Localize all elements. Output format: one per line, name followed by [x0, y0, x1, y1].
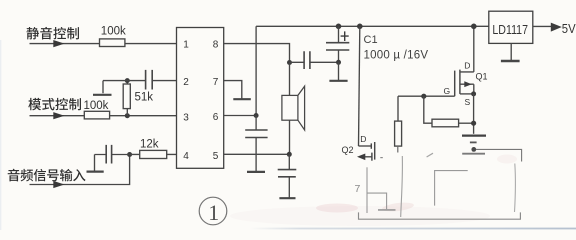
node speaker bottom	[287, 152, 292, 157]
node rail/Q2	[357, 24, 363, 30]
svg-text:S: S	[465, 97, 471, 107]
resistor R1 100k (mute)	[100, 26, 126, 47]
input arrow (mute)	[53, 40, 64, 47]
figure number 1	[199, 197, 227, 225]
svg-text:51k: 51k	[135, 92, 154, 104]
wire rail to pin 6	[255, 26, 257, 115]
wire module tick (faded)	[427, 153, 433, 157]
svg-text:7: 7	[213, 77, 219, 88]
wire rail to Q2 drain	[359, 26, 360, 146]
wire mode input	[30, 115, 85, 117]
wire C2 to pin 2	[152, 80, 177, 82]
wire module pin7 (faded)	[366, 167, 368, 213]
svg-text:12k: 12k	[140, 139, 159, 151]
svg-text:4: 4	[183, 151, 189, 162]
wire pin 6	[224, 115, 256, 117]
wire regulator output	[533, 25, 552, 27]
wire module (faded curve)	[401, 156, 403, 217]
wire audio input	[30, 155, 130, 185]
capacitor C2 (pin 2)	[146, 70, 153, 90]
svg-text:D: D	[360, 134, 366, 144]
resistor R5 (vertical, gate)	[395, 96, 402, 152]
label mute control 静音控制	[26, 27, 79, 40]
svg-text:D: D	[464, 60, 470, 70]
svg-text:1: 1	[183, 40, 189, 51]
resistor R3 51k	[123, 81, 153, 116]
svg-text:2: 2	[183, 77, 189, 88]
wire faded node to module	[476, 149, 522, 161]
node faded junction	[471, 147, 476, 152]
svg-text:Q1: Q1	[476, 72, 488, 82]
ground (module, faded)	[367, 193, 396, 210]
node source/R6	[471, 121, 476, 126]
wire R2 to pin 3	[110, 115, 177, 117]
ground (Q1 source)	[462, 134, 486, 136]
speaker LS	[282, 63, 305, 155]
resistor R6 (gate-source)	[432, 119, 474, 127]
resistor R2 100k (mode)	[84, 100, 110, 119]
ground (C1)	[329, 62, 347, 81]
svg-text:100k: 100k	[84, 100, 109, 112]
label mode control 模式控制	[28, 98, 81, 110]
module outline bracket (faded)	[359, 212, 521, 219]
wire Q1 gate	[398, 95, 455, 97]
ground (C4)	[247, 171, 265, 173]
capacitor C3 (audio shunt)	[95, 145, 130, 164]
output arrow	[551, 23, 562, 32]
power rail	[256, 25, 489, 27]
wire mute input	[30, 43, 100, 45]
wire pin 7	[224, 81, 242, 99]
node Q1 source	[471, 91, 476, 96]
node pin 8 branch	[287, 60, 292, 65]
ground (pin 2 branch)	[93, 81, 112, 95]
capacitor C6 (output)	[278, 154, 297, 197]
node gate junction	[421, 94, 426, 99]
resistor R4 12k	[130, 139, 177, 159]
node 51k top on pin 2 wire	[125, 78, 130, 83]
wire gate to R6	[424, 96, 432, 123]
node pin 6	[254, 113, 259, 118]
svg-text:5: 5	[213, 151, 219, 162]
wire pin 5	[224, 153, 290, 155]
svg-text:G: G	[444, 86, 451, 96]
IC U1	[177, 28, 224, 169]
transistor Q2	[342, 134, 383, 161]
wire R1 to pin 1	[125, 43, 177, 45]
capacitor C5 (pin8 to C1)	[290, 51, 339, 69]
capacitor C4 (pin 6)	[245, 116, 267, 172]
svg-text:6: 6	[213, 112, 219, 123]
transistor Q1	[444, 60, 488, 107]
node rail/C1	[336, 24, 342, 30]
input arrow (audio)	[53, 181, 64, 188]
wire Q1 drain to rail	[473, 26, 475, 72]
node Q1 drain/rail	[471, 24, 477, 30]
wire module L (faded)	[435, 171, 468, 206]
wire Q1 source down	[473, 94, 475, 134]
capacitor C1 electrolytic	[326, 26, 349, 62]
input arrow (mode)	[53, 112, 64, 119]
svg-text:8: 8	[213, 40, 219, 51]
ground (C6)	[279, 197, 295, 199]
label audio input 音频信号输入	[8, 169, 86, 182]
ground (pin 7)	[233, 98, 251, 100]
svg-text:1000 µ /16V: 1000 µ /16V	[364, 50, 429, 62]
regulator LD1117	[489, 11, 533, 43]
node C1 negative	[336, 60, 341, 65]
wire module right edge (faded)	[514, 164, 517, 213]
svg-text:3: 3	[183, 112, 189, 123]
ground (LD1117)	[501, 43, 520, 61]
ground (audio branch)	[87, 155, 104, 172]
svg-text:Q2: Q2	[342, 145, 354, 155]
svg-text:5V: 5V	[562, 21, 576, 36]
svg-text:C1: C1	[364, 34, 378, 46]
wire pin 8	[224, 44, 290, 63]
wire pin 2 left segment	[103, 80, 146, 82]
node mode/51k junction	[125, 113, 130, 118]
svg-text:LD1117: LD1117	[492, 22, 528, 37]
node audio/C3 junction	[127, 152, 132, 157]
svg-text:100k: 100k	[101, 26, 126, 38]
svg-text:7: 7	[355, 183, 361, 195]
capacitor (faded, below Q1 ground)	[462, 142, 485, 153]
